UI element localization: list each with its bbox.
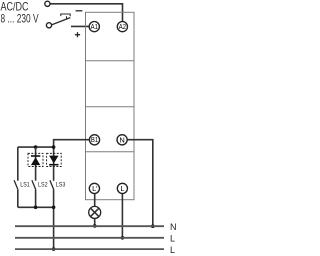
terminal L — [117, 183, 127, 193]
terminal A1 — [89, 22, 99, 32]
terminal A2 — [117, 22, 127, 32]
junction dot — [52, 247, 56, 251]
diode D1 — [31, 155, 40, 157]
svg-text:LS3: LS3 — [56, 182, 66, 189]
wire LS2 branch — [35, 147, 37, 181]
svg-text:N: N — [170, 222, 177, 232]
svg-text:A1: A1 — [91, 22, 98, 31]
svg-text:8 ... 230 V: 8 ... 230 V — [1, 11, 39, 25]
svg-text:N: N — [119, 135, 124, 144]
switch S1 lever — [52, 18, 71, 25]
terminal L' — [89, 183, 99, 193]
terminal N — [117, 135, 127, 145]
wire L' to lamp to N bus — [94, 194, 96, 226]
device divider 2 — [86, 106, 135, 108]
svg-text:L: L — [170, 245, 175, 255]
junction dot — [121, 236, 125, 240]
junction dot — [151, 224, 155, 228]
svg-text:B1: B1 — [91, 135, 98, 144]
junction dot — [52, 145, 56, 149]
switch LS2 — [32, 180, 36, 189]
switch LS3 — [50, 180, 54, 189]
wire switch join — [18, 206, 54, 208]
polarity minus — [76, 10, 83, 12]
wire N to N bus — [127, 140, 153, 227]
polarity plus — [75, 32, 80, 37]
bus line N — [15, 225, 164, 227]
device divider 1 — [86, 60, 135, 62]
svg-text:A2: A2 — [119, 22, 126, 31]
device box — [86, 12, 135, 199]
wire B1 control line — [54, 140, 90, 181]
bus line L — [15, 237, 164, 239]
switch S1 actuator bracket — [61, 14, 70, 16]
wire LS1 branch — [17, 147, 19, 181]
svg-text:LS1: LS1 — [20, 182, 30, 189]
diode D2 dashed box — [47, 153, 62, 166]
junction dot — [93, 224, 97, 228]
svg-text:L’: L’ — [92, 184, 98, 193]
terminal B1 — [89, 135, 99, 145]
bus line L2 — [15, 248, 164, 250]
junction dot — [34, 206, 38, 210]
wire L to L bus — [121, 194, 123, 238]
diode D1 dashed box — [28, 153, 43, 166]
diode D2 — [49, 156, 58, 164]
svg-text:L: L — [120, 184, 124, 193]
junction dot — [52, 206, 56, 210]
lamp E1 — [89, 206, 101, 218]
switch LS1 — [14, 180, 18, 189]
svg-text:LS2: LS2 — [38, 182, 48, 189]
wire supply to A2 — [50, 4, 122, 22]
terminal circle switch supply — [46, 23, 51, 28]
wire switch to A1 — [71, 25, 90, 27]
terminal circle top supply — [45, 1, 50, 6]
svg-text:L: L — [170, 234, 175, 244]
junction dot — [34, 145, 38, 149]
device divider 3 — [86, 151, 135, 153]
wire diode top bus — [18, 146, 54, 148]
